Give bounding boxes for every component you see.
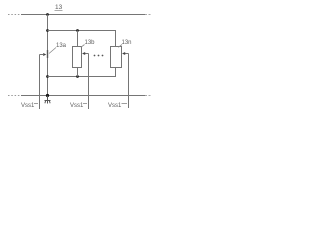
svg-text:Vss1: Vss1 <box>21 103 35 109</box>
resistor box 13n control arrow <box>124 53 129 55</box>
wire box1 bottom lead <box>77 68 79 77</box>
wire mid line y=76 to box2 bottom <box>48 67 116 77</box>
wire gate terminal x=39 down below rail <box>39 55 41 110</box>
resistor box 13b body <box>73 47 82 68</box>
transistor Q 13a gate lead <box>40 54 44 56</box>
label 13b leader line <box>81 45 85 48</box>
node junction dot at (77,30) <box>76 29 79 32</box>
node junction dot at (47,95) <box>46 94 49 97</box>
wire box1 control terminal x=88 down below rail <box>88 54 90 110</box>
resistor box 13b control arrow <box>84 53 89 55</box>
node junction dot at (47,14) <box>46 13 49 16</box>
node junction dot at (47,76) <box>46 75 49 78</box>
label 13a leader line <box>49 48 56 54</box>
svg-text:13b: 13b <box>85 40 96 46</box>
svg-text:13: 13 <box>55 4 63 11</box>
wire box2 control terminal x=128 down below rail <box>128 54 130 109</box>
svg-text:13a: 13a <box>56 43 67 49</box>
transistor Q 13a gate arrowhead <box>43 53 46 56</box>
node junction dot at (47,30) <box>46 29 49 32</box>
svg-text:Vss1: Vss1 <box>70 103 84 109</box>
wire source x=47 down to bottom rail <box>47 58 49 96</box>
label 13n leader line <box>118 45 122 48</box>
wire bottom rail <box>8 95 152 97</box>
resistor box 13n body <box>111 47 122 68</box>
transistor Q 13a channel bar <box>47 50 49 58</box>
svg-text:Vss1: Vss1 <box>108 103 122 109</box>
label 13 underline <box>55 10 63 12</box>
ground symbol <box>45 96 51 104</box>
wire top supply rail <box>8 14 152 16</box>
wire branch y=30 to box2 top <box>48 31 116 47</box>
label Vss1 leader dash (middle) <box>83 103 87 105</box>
node junction dot at (77,76) <box>76 75 79 78</box>
wire box1 top lead <box>77 31 79 47</box>
series continuation dots <box>94 55 104 57</box>
wire vertical x=47 from rail to transistor <box>47 15 49 51</box>
label Vss1 leader dash (right) <box>122 103 128 105</box>
label Vss1 leader dash (left) <box>34 103 38 105</box>
svg-text:13n: 13n <box>122 40 132 46</box>
